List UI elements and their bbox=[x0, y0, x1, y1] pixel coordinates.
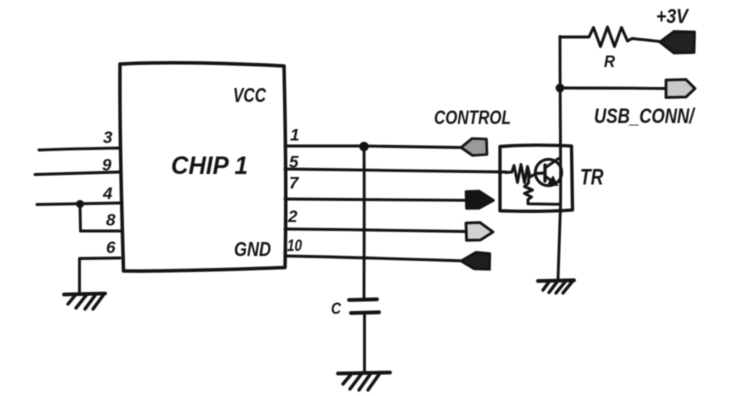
svg-text:4: 4 bbox=[102, 184, 113, 203]
svg-text:8: 8 bbox=[106, 211, 116, 230]
svg-text:2: 2 bbox=[287, 207, 298, 226]
svg-text:TR: TR bbox=[580, 165, 604, 190]
svg-text:CONTROL: CONTROL bbox=[434, 108, 511, 129]
svg-text:7: 7 bbox=[289, 174, 300, 193]
svg-text:10: 10 bbox=[287, 236, 302, 255]
svg-text:3: 3 bbox=[103, 128, 113, 147]
svg-text:C: C bbox=[331, 299, 342, 318]
svg-text:GND: GND bbox=[234, 239, 271, 261]
svg-text:6: 6 bbox=[106, 238, 116, 257]
svg-text:CHIP 1: CHIP 1 bbox=[171, 152, 248, 180]
svg-text:+3V: +3V bbox=[656, 6, 689, 28]
svg-text:VCC: VCC bbox=[233, 85, 266, 107]
svg-text:USB_CONN/: USB_CONN/ bbox=[594, 105, 696, 128]
svg-text:1: 1 bbox=[290, 126, 299, 145]
svg-text:R: R bbox=[604, 52, 616, 71]
